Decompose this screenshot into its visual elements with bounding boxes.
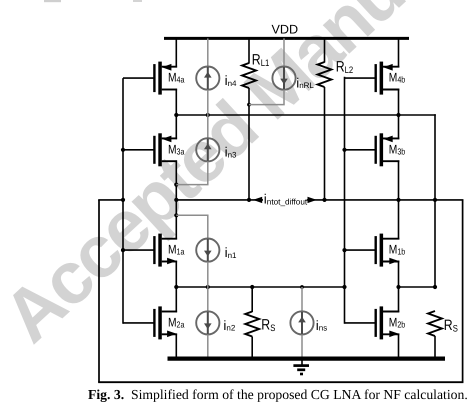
wire M3b source down to M1b drain [398, 160, 400, 239]
junction b-column i_ntot line [396, 198, 400, 202]
junction i_n column y287 [206, 285, 210, 289]
current source i_nRL [272, 67, 314, 91]
wire M1a source to M2a drain [175, 261, 177, 313]
wire left outer to gate bus [98, 199, 123, 201]
svg-text:Fig. 3. Simplified form of th: Fig. 3. Simplified form of the proposed … [88, 387, 468, 402]
junction right bus M3b gate [342, 148, 346, 152]
wire source node left (M1a/RS/ins to right bus) [176, 286, 344, 288]
wire M3a source down to M1a drain [175, 160, 177, 239]
junction a-column at y115 [174, 113, 178, 117]
wire i_n2 bottom stub [207, 335, 209, 359]
ground symbol [293, 359, 309, 374]
resistor RS left zigzag [245, 312, 259, 337]
wire right outer feedback vertical [462, 200, 464, 382]
svg-text:M1a: M1a [168, 243, 185, 257]
wire y115 corner down to RS right [434, 114, 436, 200]
svg-text:M1b: M1b [389, 243, 406, 257]
wire i_nRL top stub [283, 38, 285, 66]
wire left gate bus [122, 78, 124, 324]
junction a-column i_ntot line [174, 198, 178, 202]
transistor M4b [345, 62, 406, 95]
transistor M3a [123, 133, 185, 166]
resistor RL1 zigzag [242, 63, 256, 88]
svg-text:M4b: M4b [389, 71, 406, 85]
resistor RL2 bottom wire [324, 87, 326, 200]
wire right gate bus [344, 77, 346, 324]
node i_ntot_diffout wire right [307, 199, 464, 201]
current source i_n1 [196, 239, 237, 262]
svg-text:M2b: M2b [389, 315, 406, 329]
wire i_ns bottom stub [301, 335, 303, 360]
junction RS-left top [250, 285, 254, 289]
transistor M1a [123, 234, 185, 267]
wire M4a source to M3a drain [175, 89, 177, 140]
resistor RS right bottom wire [434, 336, 436, 359]
junction a-column y287 line [174, 285, 178, 289]
resistor RL2 top stub [324, 38, 326, 62]
junction RS-right column y287 [433, 285, 437, 289]
wire M2b source to ground rail [398, 334, 400, 359]
junction right bus y287 [342, 285, 346, 289]
ground rail [168, 357, 446, 361]
junction a-column i_n1 tap [174, 213, 178, 217]
node i_ntot_diffout wire left [176, 199, 263, 201]
svg-text:RS: RS [444, 317, 458, 334]
wire M1b source to M2b drain [398, 261, 400, 313]
wire i_n1 to i_n2 [207, 262, 209, 312]
arrow i_ntot right [308, 197, 317, 203]
resistor RS left top wire [251, 287, 253, 312]
junction RL1 / i_nRL [247, 103, 251, 107]
wire M2a source to ground rail [175, 334, 177, 359]
wire i_n1 top hookup [176, 215, 208, 238]
wire i_ns top stub [301, 287, 303, 311]
wire i_n4 top stub [207, 38, 209, 66]
VDD rail [164, 37, 409, 40]
page artifact speck top-left 2 [133, 0, 142, 2]
junction RL1 bottom on i_ntot line [247, 198, 251, 202]
svg-text:in2: in2 [223, 318, 235, 333]
transistor M3b [345, 133, 406, 166]
junction left bus / outer feedback [121, 198, 125, 202]
page artifact speck top-left [44, 0, 61, 2]
wire outer feedback bottom [98, 381, 463, 383]
resistor RS left bottom wire [251, 337, 253, 359]
wire i_n3 bottom hookup [176, 161, 208, 184]
transistor M2b [345, 306, 406, 339]
junction RS-right column i_ntot [433, 198, 437, 202]
current source i_n3 [196, 138, 237, 161]
resistor RS right zigzag [428, 311, 442, 336]
wire i_nRL bottom hookup [249, 90, 284, 105]
junction b-column y287 line [396, 285, 400, 289]
svg-text:M2a: M2a [168, 315, 185, 329]
wire M2b drain to RS right [399, 286, 436, 288]
wire drain-interconnect y115 [176, 114, 436, 116]
current source i_ns [290, 311, 327, 334]
resistor RL1 bottom wire [248, 88, 250, 200]
resistor RL2 zigzag [318, 62, 332, 87]
svg-text:VDD: VDD [272, 23, 299, 37]
junction i_ns top [300, 285, 304, 289]
svg-text:M4a: M4a [168, 71, 185, 85]
svg-text:RS: RS [261, 317, 275, 334]
transistor M4a [123, 62, 185, 95]
arrow i_ntot left [253, 197, 262, 203]
transistor M2a [123, 306, 185, 339]
current source i_n4 [196, 67, 237, 90]
junction right bus M1b gate [342, 248, 346, 252]
wire left outer feedback vertical [98, 200, 100, 382]
svg-text:ins: ins [316, 318, 327, 333]
junction left bus M3a gate [121, 148, 125, 152]
wire i_n4 to i_n3 [207, 90, 209, 139]
junction a-column i_n3 tap [174, 183, 178, 187]
current source i_n2 [196, 311, 236, 334]
wire RS right column to y287 [434, 200, 436, 287]
svg-text:in1: in1 [225, 245, 237, 260]
resistor RL1 top stub [248, 38, 250, 63]
junction left bus M1a gate [121, 248, 125, 252]
wire M4b drain to VDD [398, 38, 400, 67]
junction i_n column y115 [206, 113, 210, 117]
svg-text:Accepted Manuscript: Accepted Manuscript [0, 0, 474, 358]
junction b-column at y115 [396, 113, 400, 117]
transistor M1b [345, 234, 406, 267]
svg-text:M3b: M3b [389, 142, 406, 156]
svg-text:intot_diffout: intot_diffout [264, 192, 308, 207]
junction RL2 bottom on i_ntot line [322, 198, 326, 202]
wire M4b source to M3b drain [398, 89, 400, 140]
wire M4a drain to VDD [175, 38, 177, 67]
